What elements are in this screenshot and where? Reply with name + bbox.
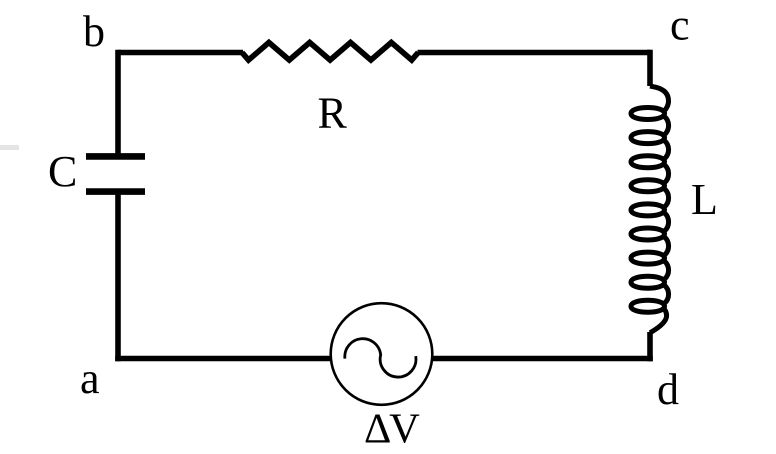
svg-text:c: c <box>670 1 690 50</box>
resistor R <box>242 43 418 61</box>
wire left lower (C to a) <box>115 195 121 362</box>
wire bottom right (source to d) <box>432 356 653 362</box>
wire left upper (b to C) <box>115 50 121 154</box>
svg-text:ΔV: ΔV <box>364 406 420 453</box>
AC source sine wave <box>345 339 416 377</box>
wire top-right segment (resistor to node c) <box>418 50 651 56</box>
svg-text:a: a <box>80 354 100 403</box>
wire bottom left (a to source) <box>115 356 331 362</box>
svg-text:b: b <box>83 7 105 56</box>
svg-text:d: d <box>657 365 679 414</box>
wire right upper (c into coil) <box>647 50 653 86</box>
svg-text:R: R <box>318 88 348 137</box>
inductor L coil <box>631 86 669 333</box>
wire top-left segment (node b to resistor) <box>118 50 243 56</box>
svg-text:C: C <box>48 147 77 196</box>
wire right lower (coil to d) <box>647 332 653 361</box>
capacitor C (two plates) <box>86 156 145 191</box>
gray artifact bar <box>0 145 19 150</box>
AC source ΔV circle <box>331 303 433 405</box>
svg-text:L: L <box>691 175 718 224</box>
